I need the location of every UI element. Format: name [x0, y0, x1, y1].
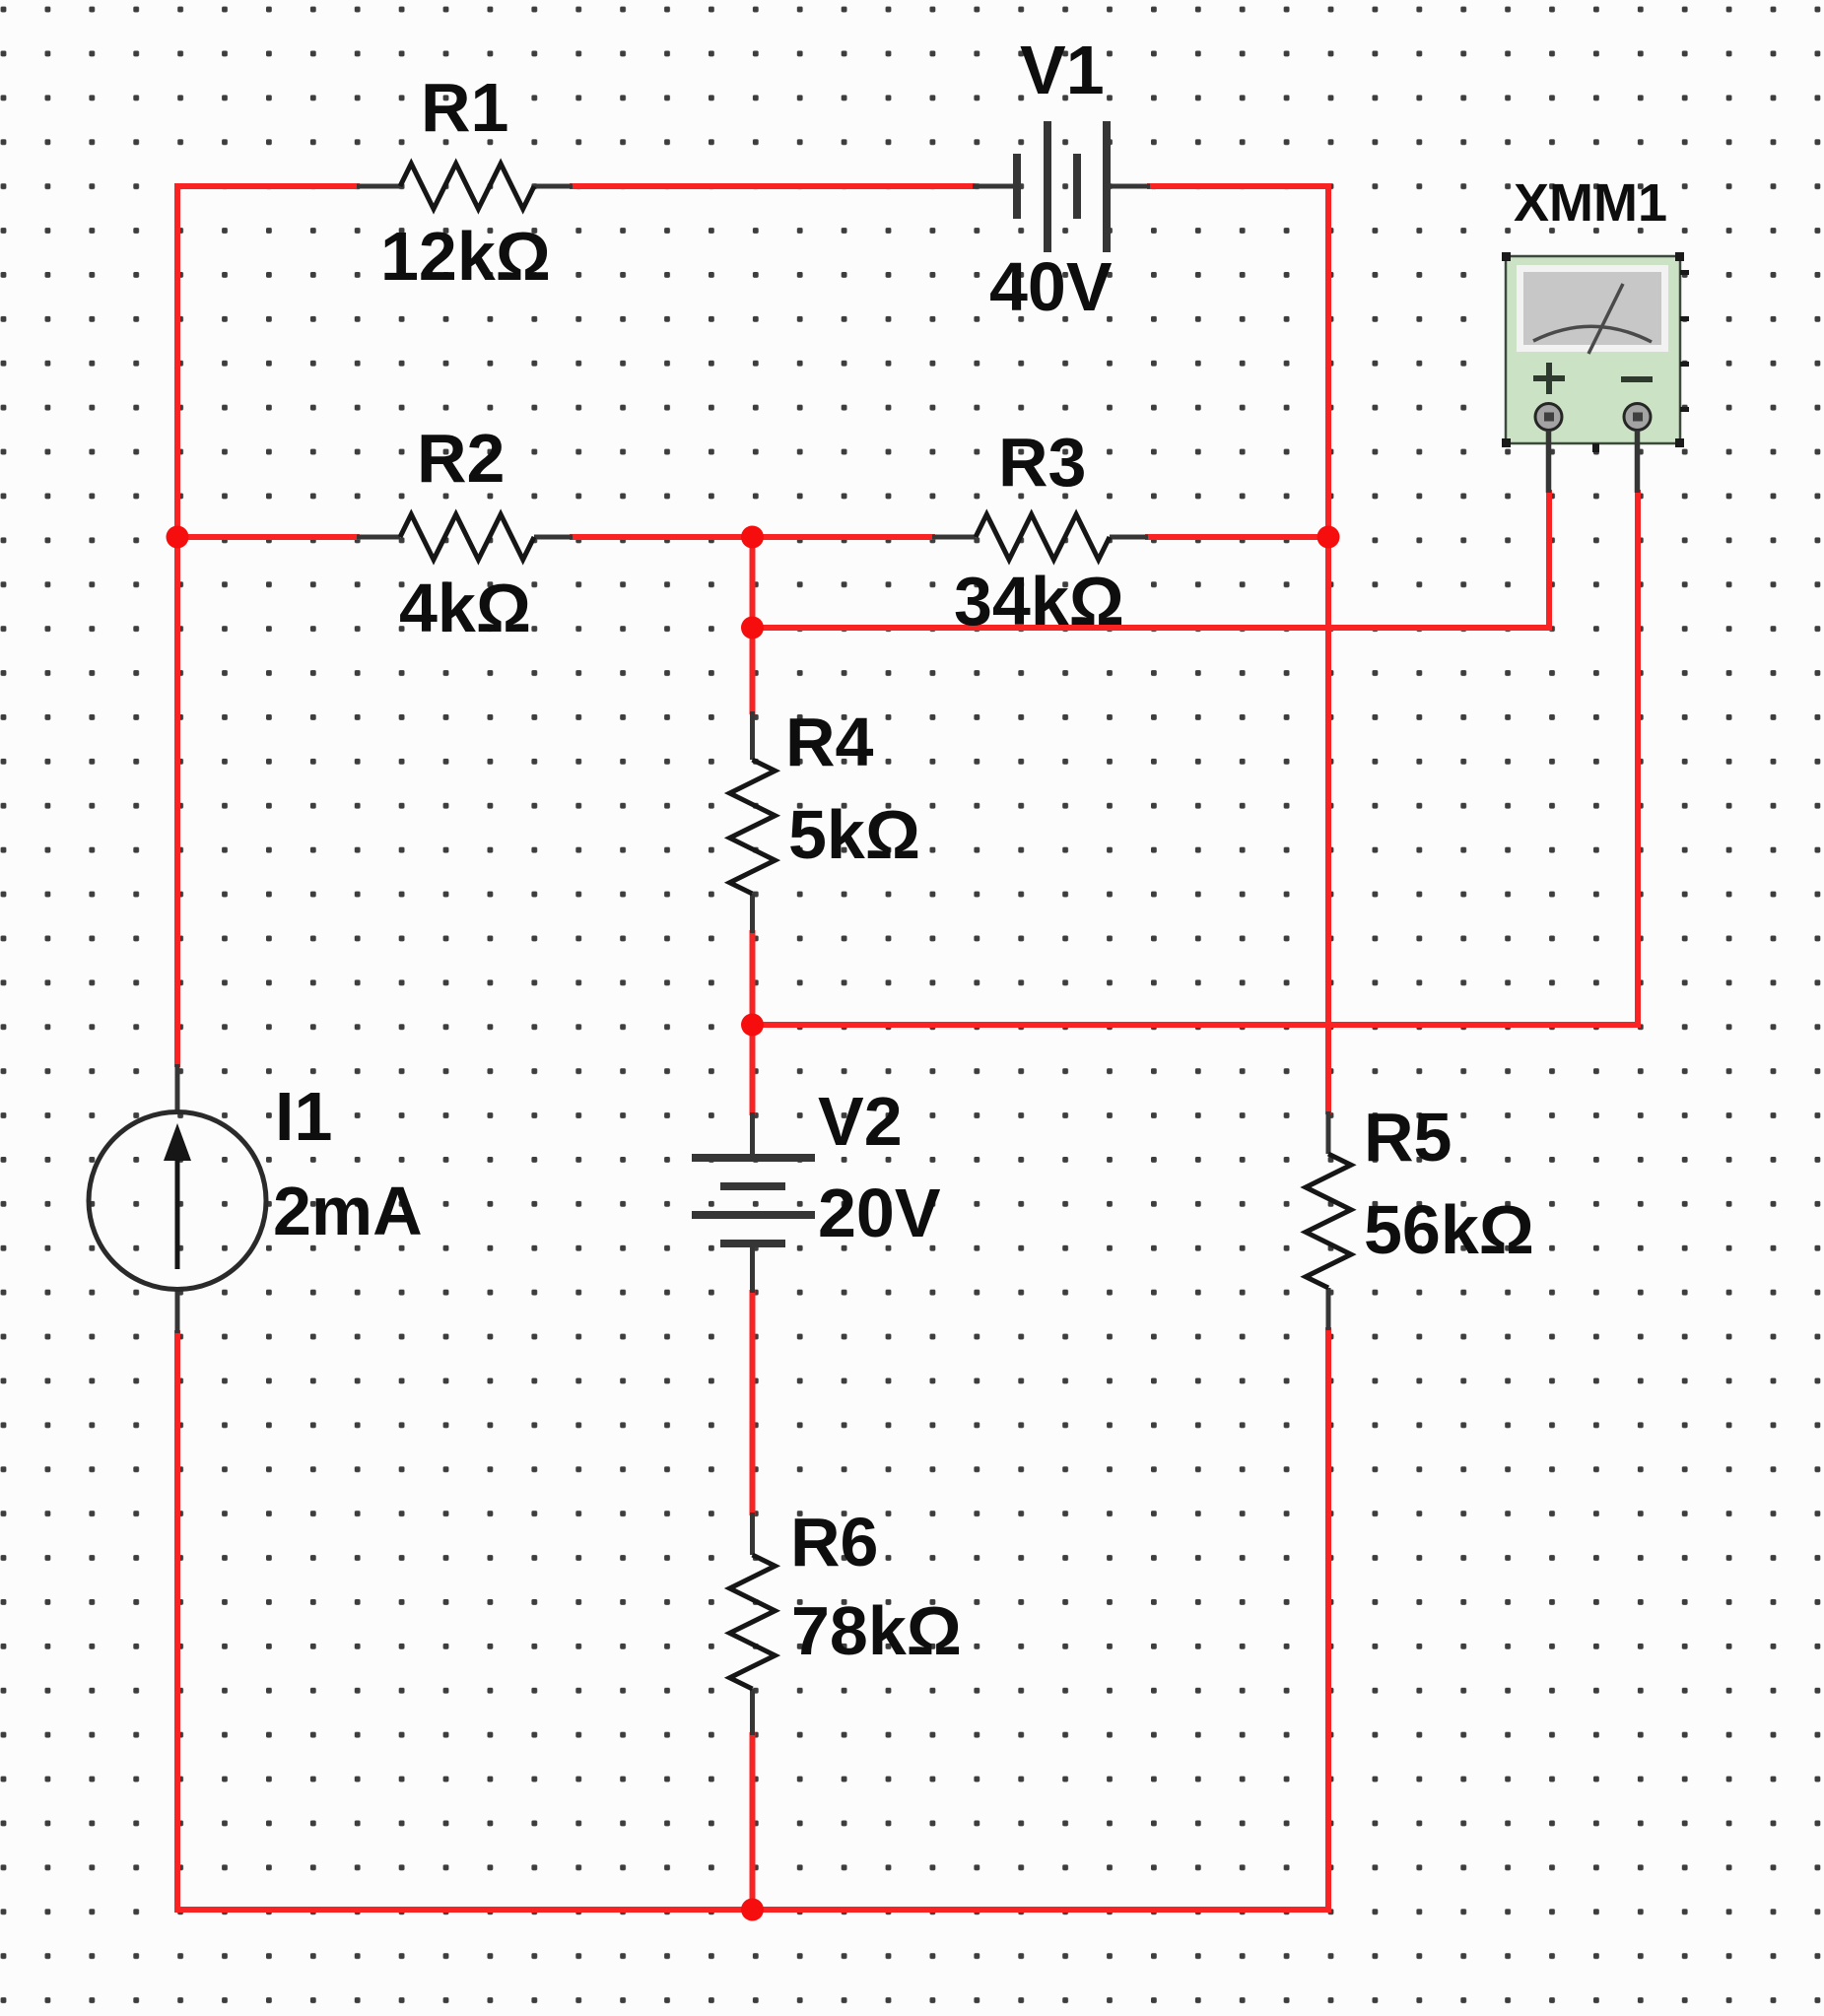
svg-text:R3: R3: [998, 424, 1086, 501]
resistor R5: [1306, 1111, 1351, 1330]
svg-text:I1: I1: [275, 1078, 332, 1155]
svg-text:40V: 40V: [989, 248, 1113, 325]
junction node C: [741, 1014, 764, 1037]
multimeter XMM1: [1502, 252, 1689, 452]
junction mid R2-R3-R4: [741, 526, 764, 549]
resistor R2: [357, 514, 573, 560]
wire left vertical x=180: [174, 186, 180, 1064]
svg-text:R1: R1: [421, 69, 508, 146]
svg-text:V2: V2: [818, 1083, 903, 1160]
svg-text:2mA: 2mA: [273, 1173, 423, 1249]
svg-text:20V: 20V: [818, 1175, 941, 1251]
wire right vertical x=1348: [1325, 186, 1331, 1111]
svg-text:V1: V1: [1020, 32, 1105, 108]
battery V1: [973, 121, 1150, 252]
wire bottom rail y=1938: [177, 1907, 1328, 1913]
wire top rail (node V1-R1) y=189: [177, 183, 357, 189]
junction bottom rail: [741, 1899, 764, 1921]
wire mid vertical x=763.5: [750, 537, 756, 711]
wire node C rail y=1040 to multimeter minus: [753, 493, 1639, 1025]
svg-text:R5: R5: [1364, 1099, 1452, 1176]
resistor R3: [932, 514, 1148, 560]
svg-text:R4: R4: [785, 704, 874, 780]
svg-text:4kΩ: 4kΩ: [399, 570, 531, 646]
wire R2-R3 rail y=545: [177, 534, 357, 540]
junction R3-right rail: [1317, 526, 1340, 549]
multimeter plus terminal: [1535, 404, 1562, 494]
current source I1: [89, 1064, 266, 1333]
wire node B rail y=637 to multimeter plus: [753, 493, 1550, 628]
svg-text:56kΩ: 56kΩ: [1364, 1191, 1534, 1268]
junction node B: [741, 617, 764, 639]
svg-text:34kΩ: 34kΩ: [954, 563, 1124, 639]
resistor R4: [730, 711, 776, 933]
svg-text:XMM1: XMM1: [1514, 173, 1667, 233]
svg-text:R2: R2: [417, 420, 505, 497]
svg-text:12kΩ: 12kΩ: [380, 218, 551, 295]
svg-text:5kΩ: 5kΩ: [788, 796, 920, 873]
resistor R6: [730, 1512, 776, 1735]
battery V2: [692, 1112, 815, 1293]
junction left-R2: [167, 526, 189, 549]
multimeter minus terminal: [1624, 404, 1651, 494]
svg-text:78kΩ: 78kΩ: [791, 1592, 962, 1669]
svg-text:R6: R6: [790, 1504, 878, 1580]
resistor R1: [357, 164, 573, 209]
